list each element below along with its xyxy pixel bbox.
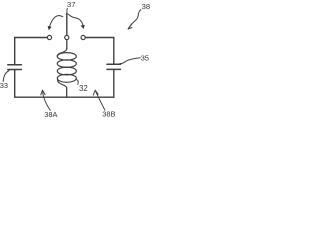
switch arrow right xyxy=(68,14,84,26)
wire right vertical upper xyxy=(113,38,115,65)
svg-text:38: 38 xyxy=(142,2,150,11)
wire left vertical lower xyxy=(14,70,16,98)
wire top-left xyxy=(15,37,48,39)
svg-text:38A: 38A xyxy=(44,110,57,119)
arrow 38B shaft xyxy=(95,91,105,110)
svg-text:32: 32 xyxy=(79,84,88,93)
svg-text:33: 33 xyxy=(0,81,8,90)
label 35 leader xyxy=(120,58,141,64)
arrow 38 shaft xyxy=(128,10,141,29)
svg-text:35: 35 xyxy=(141,53,149,62)
switch arrow left xyxy=(49,16,63,28)
label 33 leader xyxy=(3,71,9,82)
wire right vertical lower xyxy=(113,69,115,97)
switch S37 pole line xyxy=(66,14,68,35)
arrow 38A head xyxy=(41,90,45,95)
inductor L32 xyxy=(57,49,76,98)
wire pole to coil xyxy=(66,40,68,49)
svg-text:38B: 38B xyxy=(102,110,115,119)
label 32 leader xyxy=(76,79,78,84)
capacitor C35 xyxy=(107,64,121,69)
arrow 38 head xyxy=(128,24,132,29)
arrow 38B head xyxy=(93,90,98,95)
wire top-right xyxy=(85,37,113,39)
arrow 38A shaft xyxy=(42,91,50,111)
capacitor C33 xyxy=(8,65,22,70)
wire bottom xyxy=(15,96,114,98)
label 37 leader xyxy=(66,9,69,15)
switch arrow right arrowhead xyxy=(81,25,85,29)
svg-text:37: 37 xyxy=(67,0,75,9)
switch S37 pole contact xyxy=(65,35,69,39)
wire left vertical upper xyxy=(14,38,16,65)
switch S37 left contact xyxy=(47,35,51,39)
switch arrow left arrowhead xyxy=(48,26,52,30)
switch S37 right contact xyxy=(81,35,85,39)
